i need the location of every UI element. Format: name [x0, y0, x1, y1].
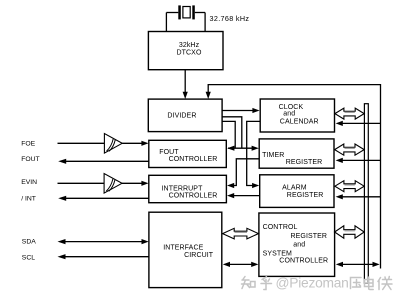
block DIVIDER: [148, 99, 222, 132]
pin FOE input wire: [58, 142, 105, 144]
wire INTERFACE to CONTROL bidirectional: [229, 263, 254, 265]
svg-text:INTERRUPT: INTERRUPT: [162, 185, 204, 192]
svg-text:REGISTER: REGISTER: [291, 233, 328, 240]
block INTERRUPT CONTROLLER: [149, 175, 227, 202]
svg-text:FOUT: FOUT: [159, 149, 179, 156]
glyph 压: [351, 278, 362, 289]
block INTERFACE CIRCUIT: [149, 212, 222, 287]
glyph 电: [365, 277, 374, 290]
svg-text:SDA: SDA: [22, 239, 36, 246]
svg-text:SYSTEM: SYSTEM: [263, 250, 292, 257]
svg-text:FOUT: FOUT: [21, 156, 40, 163]
svg-text:TIMER: TIMER: [262, 152, 284, 159]
watermark 知乎 @Piezoman压电侠: [242, 276, 393, 291]
svg-text:SCL: SCL: [22, 255, 35, 262]
glyph 知: [242, 277, 250, 289]
svg-text:ALARM: ALARM: [282, 185, 307, 192]
svg-text:FOE: FOE: [21, 140, 35, 147]
svg-text:and: and: [293, 242, 305, 249]
svg-text:CONTROLLER: CONTROLLER: [169, 193, 218, 200]
wire TIMER to INTERRUPT (down x=236.3): [233, 159, 259, 186]
wire system controller bus top line to DIVIDER: [208, 85, 380, 269]
block U1 32kHz DTCXO: [148, 32, 223, 70]
glyph 侠: [378, 277, 392, 290]
hollow arrow CLOCK to bus: [335, 108, 364, 119]
hollow arrow TIMER to bus: [335, 144, 365, 155]
hollow arrow INTERFACE to CONTROL: [223, 228, 259, 239]
pin FOUT output wire: [64, 160, 149, 162]
svg-text:CONTROLLER: CONTROLLER: [279, 258, 328, 265]
block CLOCK and CALENDAR: [260, 99, 334, 132]
wire crystal right lead down to DTCXO: [204, 13, 206, 32]
svg-text:32.768 kHz: 32.768 kHz: [210, 14, 250, 23]
svg-text:@Piezoman: @Piezoman: [276, 276, 349, 291]
svg-text:DTCXO: DTCXO: [177, 50, 202, 57]
pin EVIN input wire: [58, 182, 105, 184]
svg-text:EVIN: EVIN: [21, 179, 37, 186]
buffer EVIN: [104, 174, 122, 194]
svg-text:INTERFACE: INTERFACE: [163, 244, 203, 251]
buffer FOE: [104, 134, 122, 154]
svg-text:REGISTER: REGISTER: [286, 159, 323, 166]
hollow arrow CONTROL to bus: [335, 226, 365, 238]
glyph 乎: [261, 277, 272, 290]
crystal X1 32.768 kHz: [166, 5, 205, 19]
wire DTCXO to DIVIDER: [184, 70, 186, 93]
bus BUS1 data bus bar: [364, 104, 368, 284]
block FOUT CONTROLLER: [149, 140, 227, 167]
svg-text:and: and: [283, 111, 295, 118]
wire CONTROL to bus2 bidirectional: [342, 263, 375, 265]
pin SCL input wire: [63, 256, 149, 258]
wire ALARM to INTERRUPT: [233, 195, 260, 197]
block ALARM REGISTER: [260, 175, 334, 208]
pin SDA bidirectional wire: [63, 241, 143, 243]
wire row1 FOUT/TIMER: [228, 147, 253, 149]
svg-text:CIRCUIT: CIRCUIT: [184, 252, 214, 259]
svg-text:REGISTER: REGISTER: [287, 192, 324, 199]
wire control bus to CLOCK: [342, 122, 381, 124]
wire DIVIDER feeder to row1 (x=241.8): [222, 117, 242, 148]
svg-text:DIVIDER: DIVIDER: [167, 113, 196, 120]
pin /INT output wire: [64, 197, 149, 199]
block TIMER REGISTER: [259, 139, 334, 168]
wire crystal left lead down to DTCXO: [165, 13, 167, 32]
wire control bus to ALARM: [342, 196, 381, 198]
svg-text:CONTROL: CONTROL: [263, 224, 298, 231]
svg-text:32kHz: 32kHz: [179, 42, 200, 49]
wire DIVIDER feeder to row1 (x=235.2): [222, 121, 235, 148]
wire CLOCK to ALARM (down x=246.7): [247, 121, 261, 185]
hollow arrow ALARM to bus: [335, 181, 364, 192]
wire control bus to TIMER: [342, 159, 381, 161]
svg-text:CALENDAR: CALENDAR: [280, 118, 319, 125]
svg-text:/ INT: / INT: [21, 196, 36, 203]
block CONTROL REGISTER and SYSTEM CONTROLLER: [259, 213, 335, 276]
svg-text:CONTROLLER: CONTROLLER: [169, 156, 218, 163]
wire DIVIDER to CLOCK: [222, 110, 253, 112]
